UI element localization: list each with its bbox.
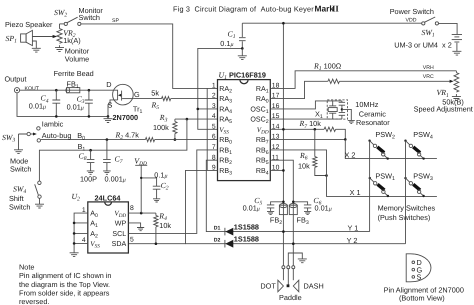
svg-text:1S1588: 1S1588 (234, 235, 259, 244)
wire pin11 RB5 to FB3 (270, 160, 293, 203)
wire paddle common to ground (288, 253, 302, 266)
svg-text:DOT: DOT (260, 281, 276, 290)
speaker SP1 (5, 20, 53, 45)
svg-text:VRC: VRC (423, 74, 434, 80)
transistor Q1 Tr1 2N7000 (106, 80, 142, 122)
svg-text:4: 4 (212, 113, 216, 120)
wire U1 left number ladder (206, 88, 208, 170)
capacitor C2 0.1u (140, 170, 169, 202)
svg-text:Switch: Switch (79, 13, 101, 22)
svg-text:Power Switch: Power Switch (390, 7, 434, 16)
svg-text:Memory Switches: Memory Switches (378, 204, 436, 213)
capacitor C5 (243, 196, 285, 215)
svg-text:G: G (134, 90, 140, 99)
ceramic resonator X1 (270, 100, 390, 127)
wire pin13 RB7 to X2 (270, 138, 345, 140)
svg-text:D: D (106, 80, 111, 89)
svg-text:5k: 5k (151, 88, 159, 97)
U2 left pin labels (90, 210, 100, 250)
wire pin17 RA0 to VRC with resistor R1 (270, 62, 453, 99)
svg-text:Y 2: Y 2 (347, 236, 358, 245)
wire drain row: jack to Tr1 D (20, 89, 114, 91)
svg-text:Auto-bug: Auto-bug (42, 131, 72, 140)
ground (C1) (238, 56, 247, 60)
svg-text:2: 2 (212, 93, 216, 100)
svg-text:0.001μ: 0.001μ (105, 175, 126, 184)
svg-text:8: 8 (130, 205, 134, 212)
resistor R4 10k pull-up (154, 212, 172, 245)
ground (U2 Vss) (70, 253, 79, 257)
svg-text:SCL: SCL (112, 230, 126, 238)
svg-text:10k: 10k (298, 162, 310, 171)
svg-text:VDD: VDD (406, 17, 417, 23)
ground (battery) (452, 51, 461, 55)
svg-text:1S1588: 1S1588 (234, 223, 259, 232)
svg-text:Paddle: Paddle (279, 293, 302, 302)
ground (VR1) (452, 97, 461, 101)
ground (resonator) (348, 120, 355, 123)
2N7000 package outline (bottom view) (384, 254, 464, 302)
diode D1 1S1588 (214, 223, 259, 236)
svg-text:SP: SP (112, 18, 119, 24)
wire pin18 RA1 to VRH (270, 71, 456, 89)
wire U2 WP to ground (128, 223, 140, 228)
svg-text:1: 1 (212, 83, 216, 90)
wire speaker lower lead (32, 41, 36, 48)
resistor R6 10k (298, 129, 328, 177)
svg-text:2N7000: 2N7000 (113, 113, 139, 122)
svg-text:II: II (332, 3, 339, 13)
wire paddle lever stem (287, 269, 289, 285)
svg-text:24LC64: 24LC64 (95, 194, 122, 203)
switch SW1 power (390, 7, 439, 39)
paddle DASH contact (293, 269, 323, 292)
wire B0 row with resistor R2 (41, 131, 218, 142)
switch SW2 monitor (54, 6, 103, 26)
ground (SW4) (35, 204, 44, 208)
wire pin12 RB6 to X1 (270, 150, 437, 197)
wire VDD bus vertical (282, 23, 284, 203)
U1 right pin labels (250, 85, 269, 176)
ground (paddle) (298, 259, 307, 263)
capacitor C4 (29, 89, 60, 118)
svg-text:reversed.: reversed. (19, 297, 49, 305)
svg-text:1k(A): 1k(A) (63, 36, 80, 45)
U1 right pin numbers (272, 83, 280, 172)
svg-text:Output: Output (5, 74, 27, 83)
paddle DOT contact (260, 269, 283, 292)
svg-text:KOUT: KOUT (25, 86, 40, 92)
paddle lever dot (287, 284, 290, 287)
wire SP net: SW2 to pin1 RA2 (81, 24, 218, 89)
wire PSW column 1 to Y1 (369, 141, 371, 232)
wire SW1 to battery (439, 23, 458, 34)
svg-text:Speed Adjustment: Speed Adjustment (414, 105, 473, 114)
svg-text:10k: 10k (159, 221, 171, 230)
ferrite bead FB1 (54, 69, 94, 93)
U1 left pin labels (219, 85, 232, 176)
wire jack sleeve to ground rail (17, 93, 108, 117)
capacitor C3 (67, 89, 93, 118)
svg-text:Switch: Switch (9, 202, 31, 211)
wire S to ground rail (108, 105, 110, 117)
diode D2 1S1588 (214, 235, 259, 248)
wire pin14 VDD row with resistor R7 (270, 119, 345, 139)
svg-text:D1: D1 (214, 225, 221, 231)
capacitor C8 100P (79, 149, 98, 184)
svg-text:Volume: Volume (65, 54, 89, 63)
svg-text:S: S (417, 273, 422, 282)
wire D1/Y1 row (RB2) (206, 160, 369, 231)
push switch PSW4 (404, 140, 425, 160)
power flag VDD (U2) (134, 157, 147, 214)
svg-text:(Bottom View): (Bottom View) (399, 293, 445, 302)
IC U1 PIC16F819 (218, 71, 271, 181)
wire U2 VDD pin8 row (128, 212, 156, 214)
svg-text:100k: 100k (153, 123, 169, 132)
wire VDD top rail (242, 22, 421, 24)
output jack KOUT (5, 74, 40, 92)
svg-text:UM-3 or UM4 x 2: UM-3 or UM4 x 2 (394, 41, 452, 50)
U1 left pin numbers (212, 83, 216, 172)
node pin4/B1 junction (186, 118, 189, 121)
IC U2 24LC64 (72, 192, 129, 253)
svg-text:Piezo Speaker: Piezo Speaker (5, 20, 53, 29)
ferrite bead FB3 (289, 203, 309, 266)
wire pin10 RB4 to FB2 (270, 169, 283, 171)
resistor R5 5k (133, 88, 217, 111)
push switch PSW1 (369, 177, 390, 197)
wire pin4 RA5 row (175, 118, 218, 120)
node S-ground junction (107, 115, 110, 118)
svg-text:SDA: SDA (112, 240, 127, 248)
wire U2 SCL to RB1 (128, 150, 217, 234)
ground (WP) (137, 228, 144, 231)
capacitor C7 0.001u (103, 138, 126, 183)
battery BT1 (394, 35, 462, 52)
switch SW3 mode (2, 119, 71, 150)
ground (VR2) (55, 48, 64, 52)
svg-text:10MHz: 10MHz (355, 100, 378, 109)
svg-text:Note: Note (19, 262, 34, 271)
svg-text:D2: D2 (214, 237, 221, 243)
svg-text:Ferrite Bead: Ferrite Bead (54, 69, 94, 78)
potentiometer VR2 (57, 24, 90, 63)
svg-text:DASH: DASH (304, 281, 324, 290)
svg-text:3: 3 (212, 103, 216, 110)
push switch PSW3 (404, 177, 425, 197)
svg-text:5: 5 (130, 237, 134, 244)
svg-text:Switch: Switch (10, 165, 32, 174)
svg-text:VRH: VRH (423, 65, 434, 71)
svg-text:X 2: X 2 (345, 150, 356, 159)
note text (19, 262, 111, 305)
paddle connector circles (282, 266, 295, 269)
ferrite bead FB2 (270, 203, 288, 266)
svg-text:Iambic: Iambic (42, 119, 64, 128)
resistor R3 100k (153, 113, 177, 141)
ground (SW3) (14, 150, 23, 154)
svg-text:WP: WP (115, 220, 127, 228)
wire speaker to VR2 wiper (32, 35, 57, 38)
wire D2/Y2/SDA row (RB3) (128, 170, 217, 243)
capacitor C1 0.1u (220, 23, 245, 56)
svg-text:100P: 100P (80, 175, 97, 184)
capacitor C6 (292, 196, 332, 215)
svg-text:6: 6 (212, 134, 216, 141)
svg-text:(Push Switches): (Push Switches) (378, 213, 431, 222)
wire U2 address pins bus to ground (74, 213, 88, 253)
ground (Tr1 source) (104, 116, 113, 122)
svg-text:Y 1: Y 1 (348, 224, 359, 233)
wire ground rail to Vss pin5 (198, 48, 243, 129)
svg-text:5: 5 (212, 123, 216, 130)
svg-text:X 1: X 1 (350, 188, 361, 197)
U2 right pin labels (112, 210, 127, 248)
ground (speaker) (32, 48, 41, 52)
svg-text:Fig 3 Circuit Diagram of Aut: Fig 3 Circuit Diagram of Auto-bug Keyer (173, 4, 314, 13)
node RA4 tie to ground rail (198, 108, 218, 110)
potentiometer VR1 speed (414, 71, 473, 114)
wire RA5 to B1 row (39, 119, 187, 181)
svg-text:Resonator: Resonator (356, 118, 390, 127)
wire PSW column 2 to Y2 (405, 141, 407, 244)
svg-text:PIC16F819: PIC16F819 (229, 71, 266, 80)
push switch PSW2 (368, 140, 389, 160)
switch SW4 shift (9, 181, 41, 211)
